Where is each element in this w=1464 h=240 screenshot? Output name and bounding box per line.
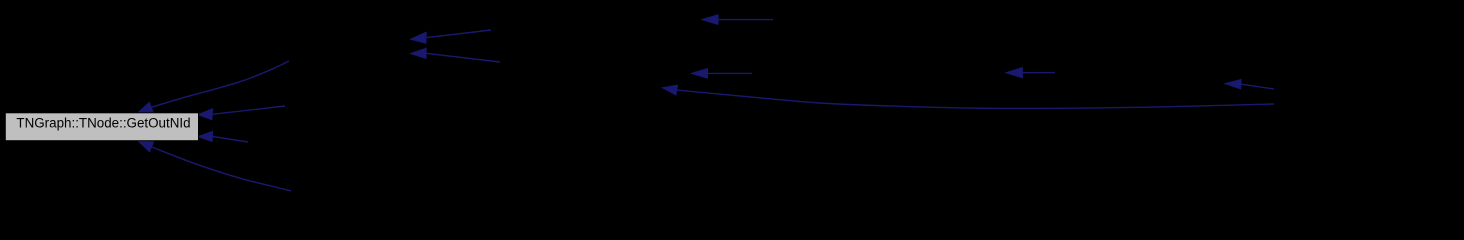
edge E2: caller node2 -> GetOutNId (arrow into box right edge upper) bbox=[198, 106, 285, 120]
edge E4: caller node4 -> GetOutNId (arrow into box bottom) bbox=[138, 141, 291, 191]
edge E1: caller node1 -> TNGraph::TNode::GetOutNId (arrow into box top) bbox=[138, 61, 289, 112]
edge E9: far-right caller long curve -> middle node bbox=[662, 85, 1274, 108]
edge E6: depth2 caller -> node1 bbox=[411, 48, 500, 62]
edge E10: caller arrow right-middle bbox=[1006, 68, 1055, 78]
svg-text:TNGraph::TNode::GetOutNId: TNGraph::TNode::GetOutNId bbox=[16, 116, 190, 131]
node box: TNGraph::TNode::GetOutNId (current function, grey fill) bbox=[5, 113, 198, 141]
edge E3: caller node3 -> GetOutNId (arrow into box right edge lower) bbox=[198, 131, 248, 142]
edge E8: depth3 caller arrow (middle) bbox=[692, 69, 753, 79]
edge E11: far-right caller arrow bbox=[1225, 80, 1274, 90]
edge E5: depth2 caller -> node1 bbox=[411, 30, 491, 43]
edge E7: depth3 caller arrow (top) bbox=[702, 15, 773, 25]
